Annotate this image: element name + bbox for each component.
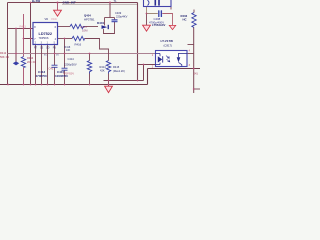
svg-text:42K: 42K — [100, 69, 105, 73]
wire snubber top — [105, 17, 115, 19]
wire IC pin1 column — [54, 45, 56, 66]
capacitor C408 — [159, 10, 162, 17]
svg-text:LD7522: LD7522 — [39, 32, 53, 36]
wire C410 top lead — [114, 18, 116, 20]
svg-text:20K 1%: 20K 1% — [27, 60, 37, 64]
connector diamond — [13, 61, 19, 65]
wire R403 column — [193, 10, 195, 13]
svg-text:2200p/50V: 2200p/50V — [64, 62, 77, 66]
svg-text:VD: VD — [45, 17, 49, 21]
svg-text:R412: R412 — [0, 51, 7, 55]
wire opto cathode y64.5 — [138, 64, 156, 66]
wire IC bottom pins — [35, 45, 37, 85]
svg-text:C409: C409 — [115, 11, 122, 15]
wire horizontal y28.5 to pin8 — [8, 28, 34, 30]
wire vertical x30.5 — [30, 3, 32, 85]
svg-text:56K 1%: 56K 1% — [0, 55, 10, 59]
resistor R410b — [106, 61, 110, 74]
svg-text:HP3TB1: HP3TB1 — [84, 17, 95, 21]
svg-text:R411: R411 — [20, 25, 27, 29]
wire under opto y68.5 — [148, 68, 201, 70]
svg-text:D401: D401 — [97, 21, 105, 25]
wire stub y44.5 — [188, 44, 194, 46]
wire snubber loop — [104, 22, 115, 34]
wire R410b bottom lead — [108, 74, 110, 87]
svg-text:220p/4KV: 220p/4KV — [116, 14, 128, 18]
svg-text:10K: 10K — [66, 49, 71, 52]
power arrow net2 — [143, 25, 151, 31]
wire stub right edge y89 — [194, 88, 200, 90]
svg-text:241: 241 — [194, 71, 199, 75]
capacitor C414b on x64.5 column — [62, 68, 68, 70]
wire arrow2 stem — [146, 14, 148, 26]
winding arc — [148, 0, 150, 6]
wire R416 to R410b — [85, 39, 109, 61]
wire pin4 right (R416) — [58, 38, 73, 40]
svg-text:R413: R413 — [27, 56, 34, 60]
IC U401 LD7522 — [33, 23, 58, 45]
svg-text:GD: GD — [46, 47, 50, 49]
wire x143.5 riser — [143, 65, 145, 81]
resistor R416 — [72, 36, 85, 40]
wire gray parallel under top — [62, 3, 138, 5]
svg-text:(C817): (C817) — [164, 43, 173, 47]
svg-text:R416: R416 — [75, 42, 82, 46]
transformer box top right — [144, 0, 172, 7]
power arrow bottom — [105, 86, 113, 92]
svg-text:VCC: VCC — [51, 17, 57, 21]
optocoupler U402 LTV-817 — [156, 51, 188, 67]
wire pin8 right (R417) — [58, 26, 71, 28]
svg-text:C41: C41 — [49, 66, 54, 70]
svg-text:(Max1.2K): (Max1.2K) — [113, 69, 125, 73]
wire x64.5 column — [64, 39, 66, 69]
wire vertical x23.5 — [23, 14, 25, 57]
wire vertical x137.5 — [137, 3, 139, 81]
resistor R417 — [70, 24, 85, 28]
svg-text:470P/50: 470P/50 — [36, 74, 48, 78]
resistor R413 — [21, 57, 25, 68]
svg-text:7DPS6S: 7DPS6S — [39, 36, 49, 40]
wire C408 right lead — [162, 14, 172, 26]
wire bottom bus — [0, 84, 148, 86]
wire transformer pin stub — [170, 7, 172, 10]
wire R410a leads — [89, 54, 91, 61]
wire VCC stub — [57, 3, 59, 11]
diode D401 — [102, 25, 109, 29]
wire horizontal y38.5 to pin7 — [24, 38, 34, 40]
wire top net — [8, 2, 138, 4]
wire vertical x16 — [15, 29, 17, 62]
svg-text:CS: CS — [40, 47, 44, 49]
svg-text:4700p/400V: 4700p/400V — [149, 20, 164, 24]
svg-text:1000P/50: 1000P/50 — [55, 74, 68, 78]
svg-text:R415: R415 — [113, 65, 120, 69]
svg-text:3C: 3C — [44, 55, 47, 57]
resistor R410a — [87, 61, 91, 74]
wire x147.5 riser — [147, 69, 149, 85]
wire y80.5 — [104, 80, 144, 82]
svg-text:C414: C414 — [68, 57, 75, 61]
power arrow right of C408 — [169, 25, 175, 29]
wire long gray y53.5 — [8, 53, 156, 55]
power arrow VCC — [54, 10, 62, 16]
svg-text:B+SW: B+SW — [32, 0, 41, 3]
wire opto collector stub — [187, 53, 194, 55]
junction dots — [7, 2, 195, 90]
emission arrows — [166, 56, 169, 59]
svg-text:R414: R414 — [100, 65, 107, 69]
resistor R403 — [192, 13, 196, 28]
svg-text:FB: FB — [53, 47, 56, 49]
wire vertical x110 — [109, 3, 111, 18]
LED inside — [158, 56, 162, 62]
wire left vertical — [7, 3, 9, 85]
capacitor C414a on pin1 column — [52, 65, 58, 67]
svg-text:10M: 10M — [82, 28, 88, 32]
capacitor in box — [155, 0, 159, 6]
svg-text:GND_INT: GND_INT — [63, 1, 76, 5]
capacitor C410 — [112, 20, 118, 22]
wire C408 left lead — [147, 7, 158, 14]
svg-text:HC: HC — [183, 17, 187, 21]
phototransistor — [177, 57, 181, 62]
